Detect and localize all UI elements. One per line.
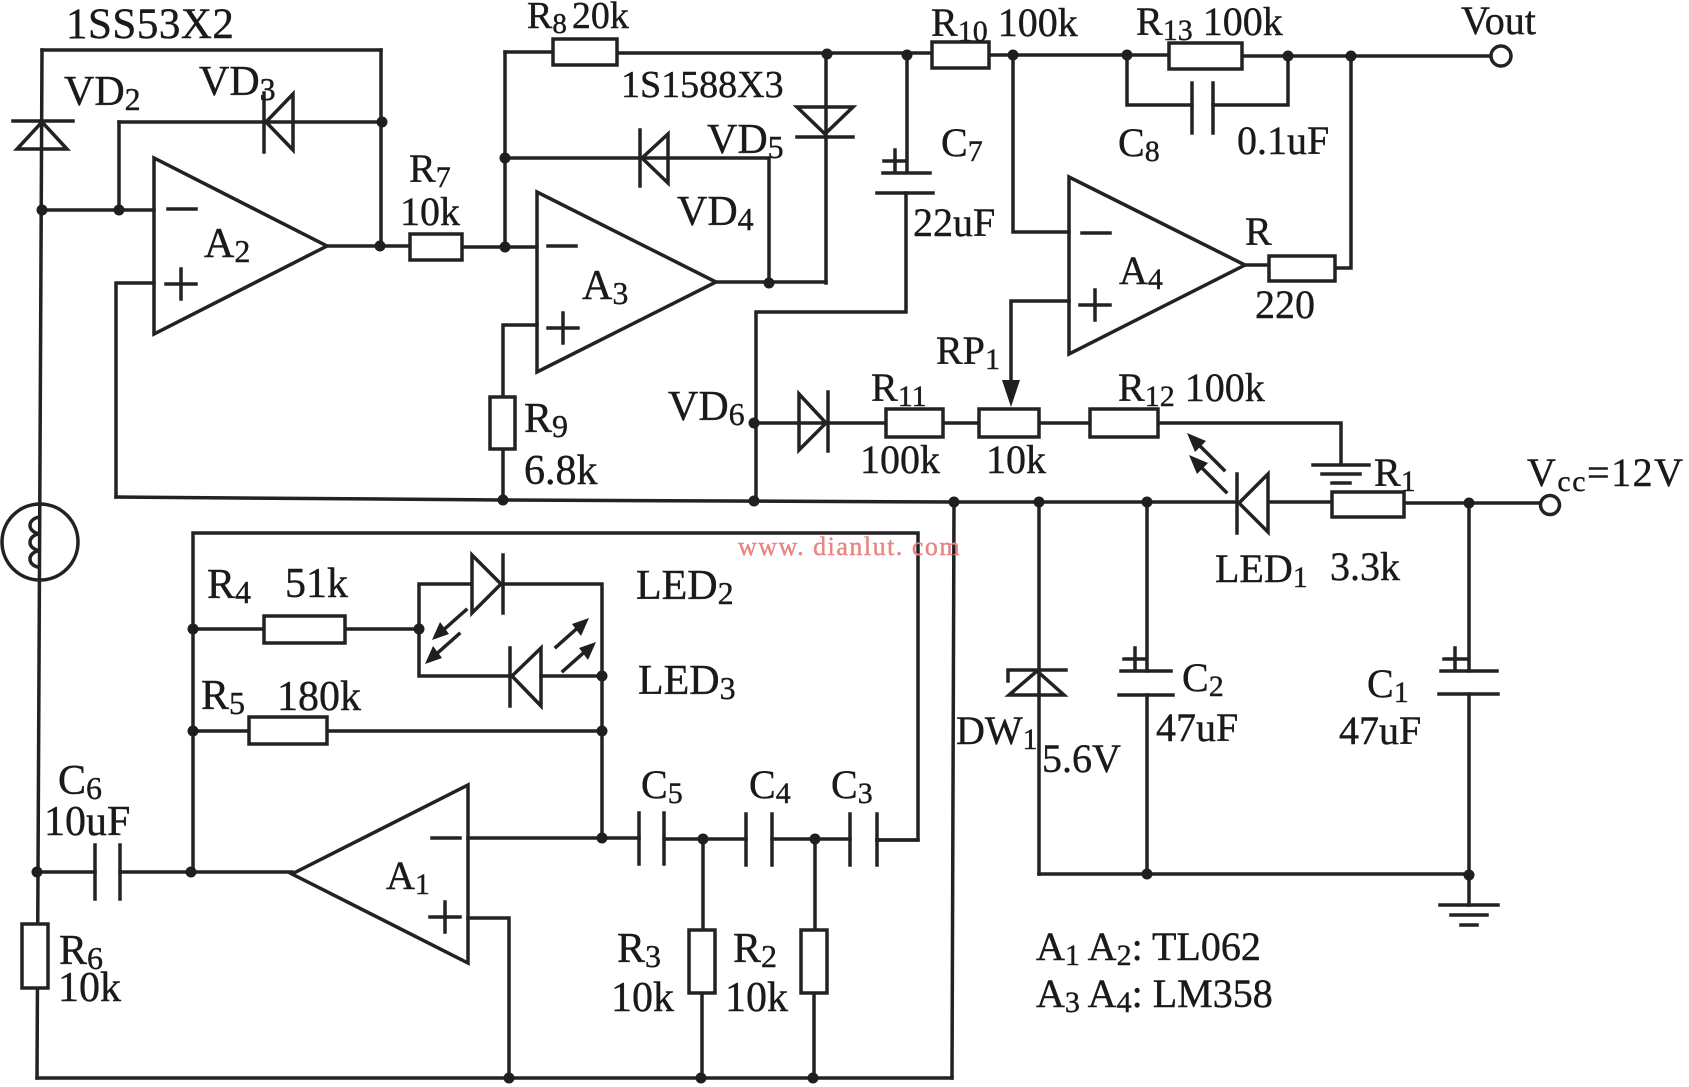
node Vout junction <box>1346 51 1357 62</box>
wire vertical x505 (R8 left / VD4 left / A3 inv node) <box>503 52 507 247</box>
node C2 bottom <box>1142 869 1153 880</box>
wire R7 to A3 inverting input <box>462 245 537 249</box>
svg-text:C1: C1 <box>1367 661 1409 709</box>
svg-text:R3: R3 <box>617 926 661 974</box>
wire RP1 wiper from A4 non-inverting input <box>1011 301 1069 382</box>
wire A3 non-inverting input to R9 <box>503 325 537 397</box>
node A3 output / VD4 <box>764 278 775 289</box>
potentiometer RP1 <box>979 409 1039 437</box>
node VD6 column on Vcc-mid rail <box>749 496 760 507</box>
wire right drop from Vcc rail to bottom rail <box>952 502 954 1078</box>
wire VD3 branch horizontal <box>119 120 382 124</box>
svg-text:R: R <box>1245 209 1272 254</box>
ground at R12 <box>1313 465 1369 483</box>
node bottom drop on Vcc-mid rail <box>949 497 960 508</box>
wire left rail <box>37 50 42 1078</box>
svg-text:0.1uF: 0.1uF <box>1237 118 1329 163</box>
wire LED2/LED3 box outer <box>193 533 918 872</box>
wire top-left feedback (VD2 loop top) <box>42 48 381 52</box>
zener diode DW1 <box>1008 670 1066 681</box>
svg-text:LED3: LED3 <box>638 658 736 706</box>
resistor R12 <box>1090 409 1158 437</box>
wire A3 output <box>716 280 826 284</box>
svg-text:A2: A2 <box>204 221 250 269</box>
resistor R5 <box>249 717 327 744</box>
svg-text:5.6V: 5.6V <box>1042 736 1121 781</box>
svg-text:R4: R4 <box>207 562 251 610</box>
svg-text:www. dianlut. com: www. dianlut. com <box>738 532 961 561</box>
resistor R7 <box>410 234 462 260</box>
node R4 right <box>414 624 425 635</box>
node R3 bottom <box>696 1073 707 1084</box>
LED LED2 <box>472 555 501 613</box>
node R2 bottom <box>808 1073 819 1084</box>
LED LED3 <box>508 648 512 706</box>
capacitor C6 <box>95 845 120 899</box>
svg-text:1S1588X3: 1S1588X3 <box>621 64 784 106</box>
svg-text:DW1: DW1 <box>956 708 1038 756</box>
wire VD5 vertical branch <box>824 55 828 283</box>
svg-text:LED1: LED1 <box>1215 546 1308 594</box>
svg-text:47uF: 47uF <box>1339 708 1421 753</box>
wire DW1 branch <box>1037 502 1041 874</box>
svg-text:R11: R11 <box>871 365 927 413</box>
svg-text:220: 220 <box>1255 282 1315 327</box>
wire VD6 R11 RP1 R12 row <box>754 423 1341 464</box>
resistor R6 <box>22 924 48 988</box>
terminal Vcc <box>1541 496 1560 515</box>
wire top rail R8 to Vout <box>505 52 1491 56</box>
ground at C1 <box>1440 905 1498 925</box>
svg-text:VD6: VD6 <box>668 384 745 432</box>
svg-text:10k: 10k <box>58 965 121 1011</box>
wire VD4 branch <box>505 158 769 283</box>
svg-text:R1: R1 <box>1374 450 1416 498</box>
op-amp A2 <box>154 158 327 334</box>
diode VD5 <box>797 135 853 139</box>
svg-text:R2: R2 <box>733 926 777 974</box>
wire C7 bottom lead down to Vcc-mid rail <box>756 193 906 501</box>
node C1 bottom <box>1464 870 1475 881</box>
op-amp A1 <box>292 785 468 963</box>
capacitor C8 <box>1192 83 1213 133</box>
svg-text:R5: R5 <box>201 673 245 721</box>
op-amp A3 <box>537 192 716 372</box>
svg-text:VD4: VD4 <box>677 189 754 237</box>
node A3 inverting input <box>500 242 511 253</box>
node VD5 top <box>822 49 833 60</box>
svg-text:C7: C7 <box>941 120 983 168</box>
svg-text:3.3k: 3.3k <box>1330 544 1400 589</box>
node R13 right / C8 right <box>1283 51 1294 62</box>
wire VD3 branch corner down to A2 inverting input <box>117 122 121 210</box>
wire LED2/LED3 inner box <box>419 584 602 676</box>
wire C8 loop <box>1127 55 1288 105</box>
wire vertical x381 to A2 output <box>379 50 383 246</box>
wire A2 output to R7 <box>327 244 410 248</box>
wire A2 non-inverting input <box>116 283 154 497</box>
resistor R1 <box>1332 492 1404 517</box>
LED LED1 <box>1235 474 1239 533</box>
svg-text:51k: 51k <box>285 561 348 607</box>
diode VD2 <box>13 119 73 123</box>
node A2 inverting input junction at left rail <box>37 205 48 216</box>
resistor R8 <box>553 39 617 65</box>
wire A4 inverting input up to top rail <box>1013 55 1069 232</box>
node DW1 top <box>1034 497 1045 508</box>
capacitor C2 <box>1119 671 1173 695</box>
svg-text:A3: A3 <box>582 263 628 311</box>
capacitor C3 <box>850 814 877 865</box>
diode VD3 <box>262 93 266 152</box>
wire A4 output to R 220 <box>1245 263 1269 267</box>
wire A1 inverting row with C5 C4 C3 <box>468 838 918 840</box>
wire Vcc rail <box>116 497 1544 503</box>
svg-text:R10 100k: R10 100k <box>931 0 1078 48</box>
node R3 top <box>698 834 709 845</box>
node x602 on A1 row <box>597 833 608 844</box>
svg-text:R12 100k: R12 100k <box>1118 365 1265 413</box>
svg-text:A3 A4: LM358: A3 A4: LM358 <box>1036 971 1273 1019</box>
diode VD6 <box>826 392 830 451</box>
svg-text:C5: C5 <box>641 762 683 810</box>
node R9 bottom on Vcc-mid rail <box>498 495 509 506</box>
node A2 output <box>375 241 386 252</box>
svg-text:C8: C8 <box>1118 120 1160 168</box>
svg-text:47uF: 47uF <box>1156 705 1238 750</box>
svg-text:A1: A1 <box>386 853 430 901</box>
svg-text:R7: R7 <box>409 146 451 194</box>
node VD3 right junction <box>377 117 388 128</box>
wire bottom ground bus DW1 to C1 <box>1039 872 1469 876</box>
node R5 right <box>597 726 608 737</box>
capacitor C7 <box>877 173 933 193</box>
node C6 left <box>32 867 43 878</box>
node R10 right / A4 inverting <box>1008 50 1019 61</box>
wire vertical x602 LED box to A1 inv row <box>600 676 604 838</box>
wire C6 row to A1 <box>37 870 292 874</box>
svg-text:R9: R9 <box>524 396 568 444</box>
svg-text:10k: 10k <box>400 189 460 234</box>
op-amp A4 <box>1069 177 1245 354</box>
svg-text:100k: 100k <box>860 437 940 482</box>
resistor R2 <box>801 930 827 993</box>
wire C2 branch <box>1145 502 1149 874</box>
svg-text:A4: A4 <box>1119 248 1163 296</box>
svg-text:6.8k: 6.8k <box>524 448 598 494</box>
wire C7 top lead <box>905 55 909 172</box>
node R5 left <box>188 726 199 737</box>
wire R9 bottom lead <box>501 449 505 500</box>
svg-text:VD2: VD2 <box>64 69 141 117</box>
svg-text:10k: 10k <box>725 975 788 1021</box>
node R2 top <box>810 834 821 845</box>
node VD6 left <box>749 418 760 429</box>
svg-text:VD5: VD5 <box>707 117 784 165</box>
resistor R10 <box>932 42 989 68</box>
svg-text:RP1: RP1 <box>936 328 1000 376</box>
node LED box left bottom <box>186 867 197 878</box>
svg-text:A1 A2: TL062: A1 A2: TL062 <box>1036 924 1261 972</box>
capacitor C5 <box>639 813 664 864</box>
node VD4 left junction <box>500 153 511 164</box>
resistor R4 <box>264 616 345 643</box>
svg-text:VD3: VD3 <box>199 59 276 107</box>
svg-text:C2: C2 <box>1182 655 1224 703</box>
svg-text:22uF: 22uF <box>913 200 995 245</box>
node R13 left / C8 left <box>1122 50 1133 61</box>
node C7 top <box>902 50 913 61</box>
wire R4 row <box>193 627 419 631</box>
resistor R9 <box>490 397 515 449</box>
wire R2 leads <box>814 839 815 1078</box>
microphone electret sensor <box>2 504 78 580</box>
svg-text:R13 100k: R13 100k <box>1136 0 1283 47</box>
terminal Vout <box>1491 46 1511 66</box>
svg-text:LED2: LED2 <box>636 563 734 611</box>
svg-text:C4: C4 <box>749 762 791 810</box>
node LED3 right corner <box>597 671 608 682</box>
wire R 220 up to Vout node <box>1335 56 1351 268</box>
wire C1 branch <box>1467 503 1471 905</box>
svg-text:10uF: 10uF <box>44 799 130 845</box>
resistor R13 <box>1169 43 1242 69</box>
svg-text:10k: 10k <box>611 975 674 1021</box>
svg-text:R820k: R820k <box>527 0 629 40</box>
svg-text:Vcc=12V: Vcc=12V <box>1527 450 1684 498</box>
capacitor C1 <box>1439 671 1498 694</box>
resistor R3 <box>689 930 715 993</box>
svg-text:C3: C3 <box>831 762 873 810</box>
node C2 top <box>1142 497 1153 508</box>
resistor R11 <box>886 409 943 437</box>
svg-text:1SS53X2: 1SS53X2 <box>66 1 234 48</box>
svg-text:10k: 10k <box>986 437 1046 482</box>
node A1 plus bottom <box>504 1073 515 1084</box>
diode VD4 <box>638 130 642 186</box>
wire bottom rail <box>37 1076 952 1080</box>
node R4 left <box>188 624 199 635</box>
wire R3 leads <box>702 839 703 1078</box>
svg-text:180k: 180k <box>277 674 361 720</box>
resistor R 220 <box>1269 256 1335 281</box>
capacitor C4 <box>746 814 772 865</box>
svg-text:Vout: Vout <box>1461 0 1536 43</box>
node VD3 feedback junction <box>114 205 125 216</box>
node C1 top <box>1464 498 1475 509</box>
wire R5 row <box>193 729 602 733</box>
wire A2 inverting input <box>42 208 154 212</box>
wire A1 non-inverting down to bottom rail <box>468 918 509 1078</box>
